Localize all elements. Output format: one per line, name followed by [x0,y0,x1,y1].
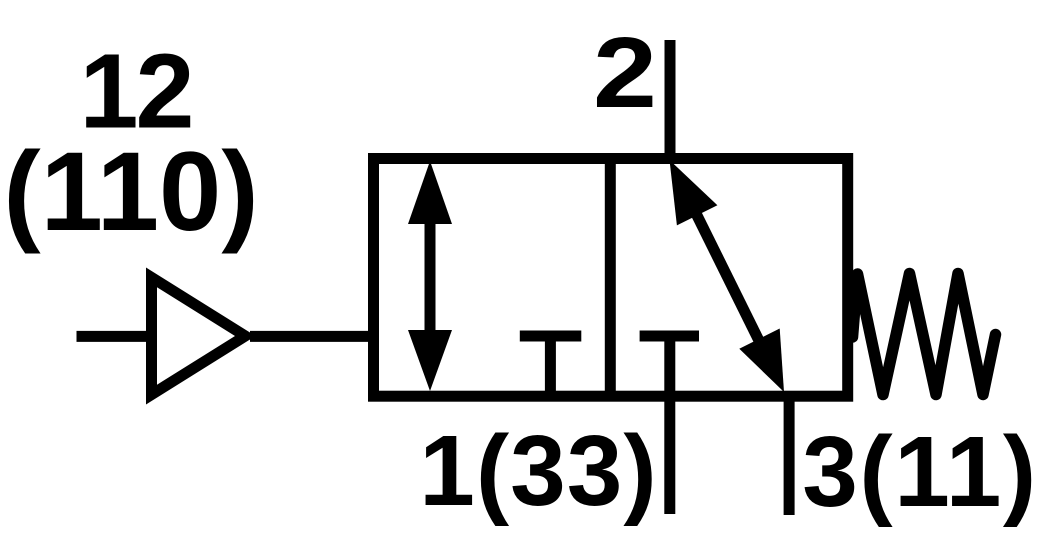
svg-text:3(11): 3(11) [802,416,1037,528]
arrowhead down (left cell) [408,330,452,391]
port 3 line [784,396,795,515]
port 1 blocked T bar (right cell) [640,331,699,342]
arrowhead down-right (right cell) [739,329,784,393]
pilot line 12 [77,331,147,342]
flow path shaft (right cell, diagonal double arrow) [678,177,776,375]
flow path shaft (left cell, vertical double arrow) [425,200,436,355]
arrowhead up (left cell) [408,161,452,224]
wire pilot to valve body [250,331,372,342]
blocked port T (left cell) stem [545,336,556,396]
svg-text:(110): (110) [3,129,258,254]
return spring [853,274,996,395]
position divider [605,159,616,397]
blocked port T (left cell) bar [520,331,582,342]
svg-text:1(33): 1(33) [419,415,657,527]
port 2 line [665,40,676,159]
svg-text:2: 2 [593,16,657,128]
pilot triangle [146,268,256,405]
port 1 line [664,336,675,514]
valve body box [374,159,848,397]
arrowhead up-left (right cell) [670,160,718,225]
